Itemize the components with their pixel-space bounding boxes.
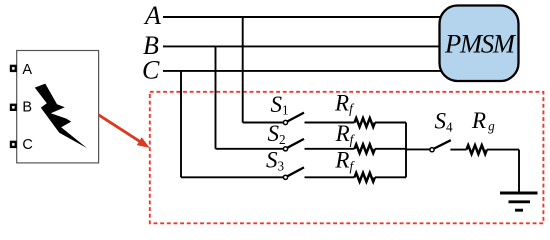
svg-text:C: C xyxy=(22,137,32,153)
svg-text:A: A xyxy=(22,62,32,78)
svg-text:A: A xyxy=(143,1,161,30)
svg-text:C: C xyxy=(142,56,160,85)
svg-text:PMSM: PMSM xyxy=(444,28,517,58)
svg-text:B: B xyxy=(22,100,32,116)
